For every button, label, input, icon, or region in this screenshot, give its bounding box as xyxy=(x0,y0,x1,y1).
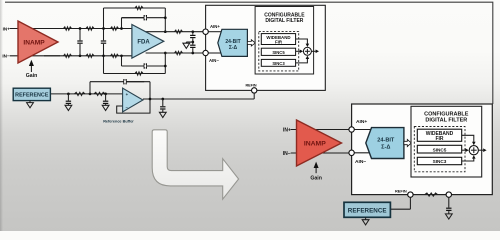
svg-text:DIGITAL FILTER: DIGITAL FILTER xyxy=(265,18,303,24)
svg-text:FIR: FIR xyxy=(275,39,283,44)
svg-text:REFERENCE: REFERENCE xyxy=(348,207,387,214)
svg-text:IN+: IN+ xyxy=(283,128,291,134)
svg-text:REFIN: REFIN xyxy=(245,84,256,88)
svg-text:Σ-Δ: Σ-Δ xyxy=(381,145,390,151)
svg-text:SINC5: SINC5 xyxy=(433,147,447,152)
svg-text:24-BIT: 24-BIT xyxy=(377,137,395,143)
svg-text:Gain: Gain xyxy=(310,175,322,181)
svg-text:Gain: Gain xyxy=(26,73,38,79)
svg-text:CONFIGURABLE: CONFIGURABLE xyxy=(424,111,469,117)
svg-text:IN−: IN− xyxy=(2,54,10,59)
svg-text:AIN−: AIN− xyxy=(209,58,219,63)
svg-text:IN−: IN− xyxy=(283,151,291,157)
svg-text:AIN+: AIN+ xyxy=(356,119,367,125)
svg-text:SINC5: SINC5 xyxy=(272,50,285,55)
svg-text:AIN+: AIN+ xyxy=(210,24,220,29)
svg-text:FDA: FDA xyxy=(137,40,150,46)
svg-text:REFERENCE: REFERENCE xyxy=(15,92,49,98)
svg-text:DIGITAL FILTER: DIGITAL FILTER xyxy=(425,118,467,124)
svg-text:FIR: FIR xyxy=(435,136,443,142)
svg-text:Σ-Δ: Σ-Δ xyxy=(229,45,238,51)
svg-text:REFIN: REFIN xyxy=(395,188,407,193)
svg-text:Reference Buffer: Reference Buffer xyxy=(103,119,134,123)
svg-text:SINC3: SINC3 xyxy=(272,61,285,66)
svg-text:INAMP: INAMP xyxy=(23,39,45,46)
svg-text:SINC3: SINC3 xyxy=(433,159,447,164)
svg-text:AIN−: AIN− xyxy=(355,159,366,165)
svg-text:IN+: IN+ xyxy=(3,26,11,31)
svg-text:INAMP: INAMP xyxy=(304,141,326,148)
